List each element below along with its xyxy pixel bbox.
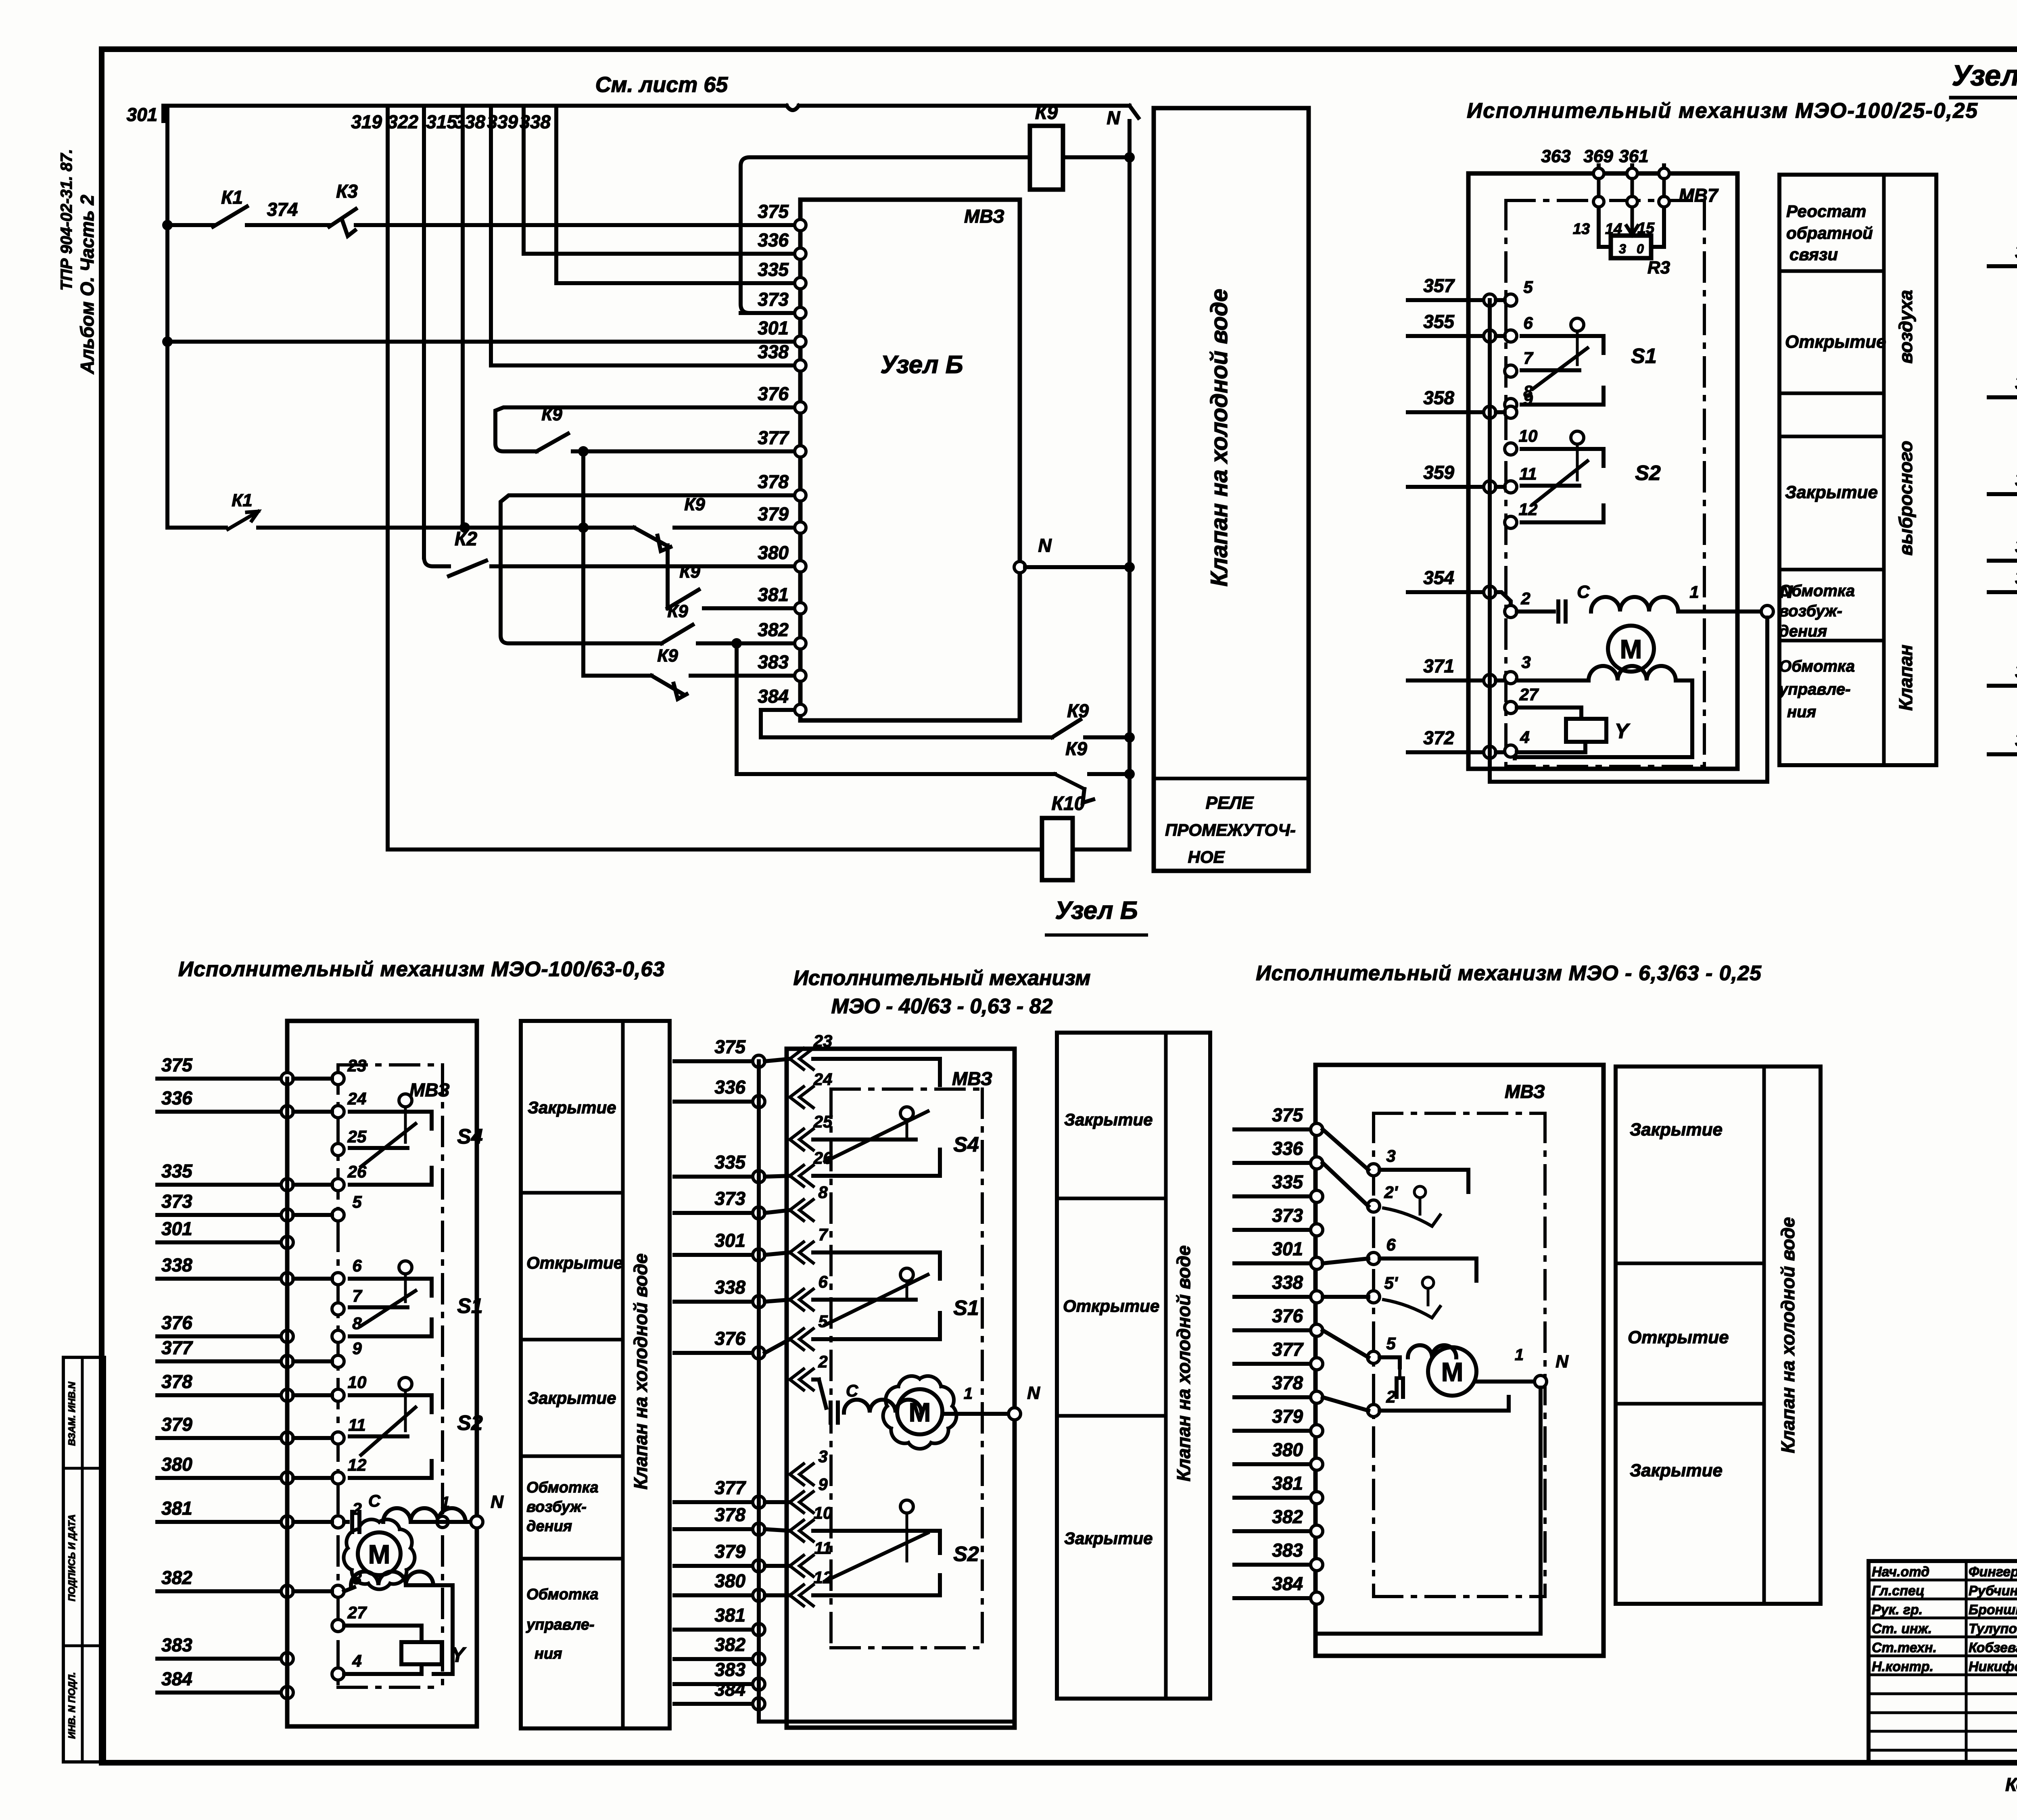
label N mid <box>1038 535 1052 556</box>
svg-text:Никифорова: Никифорова <box>1969 1659 2017 1674</box>
node N of MVZ <box>1014 561 1130 573</box>
terminal 384 of MVZ <box>795 704 806 716</box>
feeder wire 369 A1 <box>1630 165 1634 173</box>
wire 378 corner drop <box>501 511 662 643</box>
terminal label 358 A1 <box>1423 387 1454 408</box>
feeder label 338 <box>520 111 551 132</box>
svg-text:возбуж-: возбуж- <box>526 1499 587 1515</box>
label K9 381 <box>679 562 700 582</box>
terminal 381 B3 <box>1311 1492 1323 1504</box>
terminal label 382 B3 <box>1272 1506 1303 1527</box>
label S1 B2 <box>953 1296 979 1320</box>
svg-text:378: 378 <box>161 1371 192 1392</box>
junction 315-379 <box>459 522 470 533</box>
svg-text:380: 380 <box>161 1454 192 1475</box>
svg-text:К9: К9 <box>1035 102 1058 123</box>
svg-text:11: 11 <box>1519 464 1537 483</box>
terminal label 378 <box>758 471 789 492</box>
wire 381 <box>704 606 795 610</box>
margin stamp table <box>63 1357 104 1762</box>
switch S2 B2 bracket <box>813 1500 940 1595</box>
svg-text:336: 336 <box>714 1077 745 1098</box>
svg-text:S4: S4 <box>457 1125 483 1148</box>
svg-text:10: 10 <box>348 1373 367 1392</box>
svg-text:S2: S2 <box>953 1542 979 1566</box>
svg-text:358: 358 <box>1423 387 1454 408</box>
svg-text:Тулупова: Тулупова <box>1969 1621 2017 1636</box>
switch S contact 5' B3 <box>1380 1259 1476 1318</box>
svg-text:10: 10 <box>814 1503 833 1522</box>
table A1 valve of exhaust air <box>1779 175 1936 765</box>
wire 384 B3 <box>1234 1596 1317 1600</box>
svg-text:384: 384 <box>161 1668 192 1689</box>
terminal 377 of MVZ <box>795 446 806 457</box>
pin 6 B1 <box>332 1256 362 1285</box>
svg-text:дения: дения <box>1779 622 1827 640</box>
svg-text:338: 338 <box>161 1254 192 1275</box>
terminal label 338 <box>758 341 789 362</box>
contact K9 382 <box>662 625 693 643</box>
wire 375 B2 <box>674 1059 759 1063</box>
terminal label 357 A1 <box>1423 275 1455 296</box>
svg-text:381: 381 <box>714 1605 745 1626</box>
wire 377 <box>573 449 795 453</box>
svg-text:376: 376 <box>161 1312 192 1333</box>
pin circle 13 A1 <box>1593 179 1604 207</box>
terminal 377 B2 <box>753 1496 765 1508</box>
label pins 13 14 15 A1 <box>1573 220 1655 238</box>
label N B1 <box>491 1492 504 1512</box>
svg-text:375: 375 <box>1272 1104 1303 1125</box>
wire 354 A2 <box>1989 590 2017 594</box>
svg-text:361: 361 <box>1619 146 1648 166</box>
svg-text:дения: дения <box>526 1518 572 1535</box>
svg-text:301: 301 <box>714 1230 745 1251</box>
table B3 text Otkrytie <box>1628 1327 1729 1347</box>
svg-text:363: 363 <box>1541 146 1570 166</box>
terminal label 380 <box>758 542 789 563</box>
svg-text:Клапан на холодной воде: Клапан на холодной воде <box>1206 289 1232 586</box>
terminal label 372 A1 <box>1423 727 1454 748</box>
wire 338 B1 <box>157 1277 287 1281</box>
svg-text:376: 376 <box>714 1328 745 1349</box>
table B1 text Otkrytie <box>526 1253 623 1272</box>
pin 10 B1 <box>332 1373 366 1401</box>
svg-text:371: 371 <box>1423 655 1454 676</box>
svg-text:335: 335 <box>161 1160 193 1181</box>
wire 335 corner <box>556 281 795 285</box>
bottom return wire B3 <box>1317 1632 1541 1636</box>
wire K10 feeder <box>388 847 1042 852</box>
contact K9 384 <box>1052 720 1080 737</box>
switch S2 B1 <box>350 1378 483 1478</box>
terminal label 380 B2 <box>714 1570 745 1591</box>
svg-text:336: 336 <box>1272 1138 1303 1159</box>
box Klapan na holodnoy vode <box>1154 108 1309 871</box>
pin 2 B1 <box>332 1499 362 1528</box>
wire 383 B2 <box>674 1682 759 1686</box>
terminal 380 B3 <box>1311 1458 1323 1470</box>
svg-text:9: 9 <box>352 1339 362 1358</box>
wire 373 B2 <box>674 1211 759 1215</box>
wire 335 B2 <box>674 1175 759 1179</box>
wire link 381 B1 <box>293 1520 332 1524</box>
wire 301 branch <box>167 340 795 344</box>
terminal label 377 B3 <box>1272 1339 1304 1360</box>
terminal label 359 A1 <box>1423 462 1454 483</box>
label K1 lower <box>232 490 253 510</box>
svg-text:354: 354 <box>2015 567 2017 588</box>
wire feeder 322 <box>422 106 426 557</box>
svg-text:372: 372 <box>1423 727 1454 748</box>
wire 380 B3 <box>1234 1462 1317 1466</box>
svg-text:S4: S4 <box>953 1133 979 1156</box>
resistor R3 A1 <box>1611 236 1651 258</box>
dash-dot enclosure B3 <box>1374 1113 1545 1597</box>
pin 12 B2 <box>790 1568 832 1606</box>
terminal 375 B3 <box>1311 1123 1323 1135</box>
svg-text:1: 1 <box>1689 582 1699 601</box>
terminal label 335 <box>758 259 789 280</box>
wire 373 B1 <box>157 1213 287 1217</box>
svg-text:Открытие: Открытие <box>1628 1327 1729 1347</box>
pin 5' B3 <box>1368 1273 1399 1303</box>
wire pin3-winding A1 <box>1517 678 1589 682</box>
svg-text:383: 383 <box>714 1659 745 1680</box>
svg-text:С: С <box>846 1381 858 1400</box>
capacitor C A1 <box>1558 582 1590 622</box>
svg-text:Узел Б: Узел Б <box>1055 897 1138 925</box>
svg-text:338: 338 <box>454 111 485 132</box>
terminal 384 B2 <box>753 1698 765 1710</box>
svg-text:Нач.отд: Нач.отд <box>1872 1564 1929 1580</box>
wire 381 B3 <box>1234 1496 1317 1500</box>
svg-text:К10: К10 <box>1052 793 1085 814</box>
wire K9b to N <box>1089 772 1130 776</box>
terminal label 381 B2 <box>714 1605 745 1626</box>
svg-text:301: 301 <box>127 104 158 125</box>
wire N vertical B3 <box>1539 1388 1543 1634</box>
wire 375 to unit B <box>356 223 795 227</box>
pin 24 B2 <box>790 1070 832 1108</box>
wire 382 B2 <box>674 1657 759 1661</box>
svg-text:Обмотка: Обмотка <box>1779 582 1855 600</box>
svg-text:374: 374 <box>267 199 298 220</box>
svg-text:372: 372 <box>2015 729 2017 750</box>
svg-text:379: 379 <box>714 1541 745 1562</box>
label K9b <box>1065 738 1087 759</box>
terminal label 383 B2 <box>714 1659 745 1680</box>
bottom return wire B1 <box>287 1724 477 1728</box>
terminal 336 B2 <box>753 1096 765 1108</box>
svg-text:375: 375 <box>161 1054 193 1075</box>
svg-text:24: 24 <box>813 1070 833 1089</box>
terminal 382 of MVZ <box>795 638 806 649</box>
svg-text:Бронштейн: Бронштейн <box>1969 1602 2017 1618</box>
terminal 338 B2 <box>753 1296 765 1308</box>
table B3 text Zakrytie 2 <box>1630 1461 1723 1480</box>
label R3 A1 <box>1647 258 1670 278</box>
pin 27 B1 <box>332 1603 367 1632</box>
pin 7 B1 <box>332 1286 362 1315</box>
left margin text Albom 0 Chast 2 <box>77 194 98 374</box>
terminal label 373 B3 <box>1272 1205 1303 1226</box>
wire 378 B1 <box>157 1393 287 1397</box>
svg-text:R3: R3 <box>1647 258 1670 278</box>
pin 2 B3 <box>1368 1387 1396 1417</box>
margin label podpis i data <box>67 1514 77 1601</box>
wire link 3 B2 <box>765 1252 790 1255</box>
terminal 379 B3 <box>1311 1425 1323 1437</box>
wire 384 exit <box>761 710 1052 737</box>
wire 377 B1 <box>157 1359 287 1363</box>
unit box MVZ B3 <box>1315 1065 1604 1656</box>
table A1 text Reostat <box>1786 202 1873 264</box>
feeder wire 361 A1 <box>1662 165 1666 173</box>
svg-text:355: 355 <box>1423 311 1455 332</box>
label K9 383 <box>657 646 678 666</box>
terminal 373 B1 <box>281 1209 293 1221</box>
wire 336 corner <box>524 252 795 256</box>
wire 379 segment c <box>674 526 795 530</box>
svg-text:381: 381 <box>758 584 789 605</box>
terminal 383 B2 <box>753 1678 765 1690</box>
svg-text:К2: К2 <box>455 528 478 550</box>
wire 373 B3 <box>1234 1228 1317 1232</box>
terminal 301 B2 <box>753 1249 765 1261</box>
svg-text:336: 336 <box>161 1087 192 1108</box>
terminal label 335 B1 <box>161 1160 193 1181</box>
svg-text:378: 378 <box>758 471 789 492</box>
wire link 378 B1 <box>293 1393 332 1397</box>
label K9 382 <box>667 601 688 621</box>
terminal 335 B1 <box>281 1179 293 1191</box>
wire 379 B3 <box>1234 1429 1317 1433</box>
terminal 301 B1 <box>281 1236 293 1248</box>
svg-text:377: 377 <box>758 427 789 448</box>
feeder label 338 <box>454 111 485 132</box>
svg-text:Открытие: Открытие <box>526 1253 623 1272</box>
wire link 375 B1 <box>293 1077 332 1081</box>
svg-text:Закрытие: Закрытие <box>1064 1110 1153 1129</box>
svg-text:373: 373 <box>161 1191 192 1212</box>
svg-text:4: 4 <box>352 1651 361 1670</box>
note Sm. list 65 <box>595 73 729 97</box>
pin 3 A1 <box>1505 653 1531 684</box>
pin 25 B1 <box>332 1127 367 1156</box>
wire K9 coil to N <box>1063 155 1130 159</box>
svg-text:27: 27 <box>347 1603 367 1622</box>
pin 9 B2 <box>790 1475 828 1513</box>
table B1 valve cold water <box>521 1021 670 1728</box>
terminal 375 B2 <box>753 1055 765 1067</box>
svg-text:381: 381 <box>161 1498 192 1519</box>
wire 359 A2 <box>1989 559 2017 563</box>
wire 381 B1 <box>157 1520 287 1524</box>
wire 377 B2 <box>674 1500 759 1504</box>
pin 2' B3 <box>1368 1183 1399 1212</box>
svg-text:376: 376 <box>758 383 789 404</box>
label K9 384 <box>1067 700 1089 721</box>
svg-text:5: 5 <box>1386 1334 1396 1353</box>
wire pin9 A1 <box>1496 410 1505 414</box>
label 374 <box>267 199 298 220</box>
svg-text:338: 338 <box>1272 1272 1303 1293</box>
terminal 358 A1 <box>1484 406 1496 418</box>
svg-text:5: 5 <box>818 1312 828 1331</box>
wire link 1 B2 <box>765 1176 790 1177</box>
label 1 B3 <box>1515 1346 1524 1364</box>
label MVZ B3 <box>1505 1081 1545 1102</box>
terminal 379 B2 <box>753 1560 765 1572</box>
pin 5 B1 <box>332 1192 362 1221</box>
wire pin2-cap A1 <box>1517 609 1554 614</box>
svg-text:S1: S1 <box>953 1296 979 1320</box>
wire link 9 B2 <box>765 1593 790 1597</box>
pin 4 B1 <box>332 1651 362 1680</box>
pin 24 B1 <box>332 1089 366 1118</box>
wire 378 <box>501 495 795 511</box>
feeder label 369 A1 <box>1583 146 1613 166</box>
feeder label 319 <box>351 111 382 132</box>
svg-text:См. лист 65: См. лист 65 <box>595 73 729 97</box>
node N B2 <box>1008 1408 1021 1420</box>
svg-text:Узел Б: Узел Б <box>880 351 963 379</box>
terminal label 371 A2 <box>2015 661 2017 682</box>
svg-text:ТПР 904-02-31. 87.: ТПР 904-02-31. 87. <box>58 149 75 290</box>
svg-text:К1: К1 <box>232 490 253 510</box>
svg-text:369: 369 <box>1583 146 1613 166</box>
svg-text:359: 359 <box>2015 536 2017 557</box>
R3 bracket A1 <box>1599 209 1664 247</box>
terminal 380 of MVZ <box>795 561 806 572</box>
svg-text:377: 377 <box>1272 1339 1304 1360</box>
wire 379 segment b <box>258 526 634 530</box>
terminal 373 of MVZ <box>795 307 806 319</box>
table B1 text Zakrytie 2 <box>528 1388 616 1407</box>
svg-text:связи: связи <box>1789 245 1838 264</box>
svg-text:7: 7 <box>1523 349 1533 367</box>
wire 354 A1 <box>1408 590 1490 594</box>
label N B3 <box>1556 1352 1569 1371</box>
wire 377 B3 <box>1234 1362 1317 1366</box>
terminal 384 B3 <box>1311 1592 1323 1604</box>
svg-text:4: 4 <box>1520 728 1529 747</box>
terminal label 384 B1 <box>161 1668 192 1689</box>
label K9 377 <box>541 405 562 424</box>
dash-dot enclosure A1 <box>1506 200 1704 766</box>
wire 335 B1 <box>157 1183 287 1187</box>
svg-text:355: 355 <box>2015 372 2017 393</box>
terminal 13 top A1 <box>1593 168 1604 179</box>
svg-text:К9: К9 <box>541 405 562 424</box>
terminal label 336 <box>758 230 789 250</box>
svg-text:0: 0 <box>1637 242 1644 256</box>
terminal 375 B1 <box>281 1073 293 1085</box>
svg-text:322: 322 <box>387 111 418 132</box>
junction 1 B1 <box>437 1516 448 1528</box>
svg-text:ВЗАМ. ИНВ.N: ВЗАМ. ИНВ.N <box>67 1382 77 1446</box>
wire 357 A1 <box>1408 298 1490 302</box>
terminal label 382 B2 <box>714 1634 745 1655</box>
wire feeder 338a <box>489 106 493 365</box>
node label 301 <box>127 104 158 125</box>
label N top <box>1107 107 1120 128</box>
svg-text:Закрытие: Закрытие <box>528 1098 616 1117</box>
terminal label 336 B3 <box>1272 1138 1303 1159</box>
terminal label 355 A1 <box>1423 311 1455 332</box>
svg-text:Закрытие: Закрытие <box>1630 1120 1723 1140</box>
pin 3 B3 <box>1368 1146 1396 1176</box>
svg-text:3: 3 <box>1619 242 1626 256</box>
svg-text:7: 7 <box>352 1286 362 1305</box>
label MV7 A1 <box>1679 185 1719 206</box>
cable group bracket <box>741 157 1030 313</box>
svg-text:К1: К1 <box>221 187 243 208</box>
wire 378 B2 <box>674 1527 759 1531</box>
wire 382 B1 <box>157 1589 287 1593</box>
relay coil K9 <box>1030 126 1063 190</box>
svg-text:354: 354 <box>1423 567 1454 588</box>
svg-text:319: 319 <box>351 111 382 132</box>
terminal label 382 B1 <box>161 1567 192 1588</box>
svg-text:23: 23 <box>347 1056 367 1075</box>
svg-text:383: 383 <box>758 651 789 672</box>
heading Uzel B bottom <box>1046 897 1146 935</box>
label MVZ B2 <box>952 1068 992 1089</box>
label K9 379 <box>684 495 705 514</box>
svg-text:12: 12 <box>348 1455 367 1474</box>
svg-text:Копировал: Логинова: Копировал: Логинова <box>2005 1774 2017 1795</box>
label N B2 <box>1027 1383 1040 1403</box>
table B2 text Otkrytie <box>1063 1296 1159 1315</box>
signature row Н.контр. <box>1872 1659 2017 1674</box>
terminal 378 B3 <box>1311 1391 1323 1403</box>
svg-text:373: 373 <box>714 1188 745 1209</box>
svg-text:338: 338 <box>758 341 789 362</box>
pin 6 B3 <box>1368 1235 1396 1265</box>
terminal label 354 A1 <box>1423 567 1454 588</box>
pin 12 A1 <box>1505 500 1537 528</box>
terminal label 379 B2 <box>714 1541 745 1562</box>
svg-text:воздуха: воздуха <box>1895 290 1916 364</box>
svg-text:Рук. гр.: Рук. гр. <box>1872 1602 1923 1618</box>
pin 10 A1 <box>1505 426 1537 455</box>
wire 336 B2 <box>674 1100 759 1104</box>
wire 382 to K9b <box>737 643 1055 774</box>
label K1 <box>221 187 243 208</box>
svg-text:управле-: управле- <box>526 1616 595 1633</box>
terminal 359 A1 <box>1484 481 1496 493</box>
svg-text:375: 375 <box>714 1036 746 1057</box>
heading Uzel A <box>1951 60 2017 98</box>
svg-text:382: 382 <box>161 1567 192 1588</box>
label K10 <box>1052 793 1085 814</box>
wire K9 384 to N <box>1085 735 1130 739</box>
wire 355 A2 <box>1989 395 2017 399</box>
wire link 8 B2 <box>765 1564 790 1568</box>
wire 301 B3 <box>1234 1261 1317 1265</box>
svg-text:373: 373 <box>758 289 789 310</box>
svg-text:335: 335 <box>1272 1171 1303 1192</box>
wire pin4 B1 <box>344 1672 422 1676</box>
svg-text:379: 379 <box>161 1414 192 1435</box>
terminal label 375 B2 <box>714 1036 746 1057</box>
svg-text:Обмотка: Обмотка <box>526 1479 599 1496</box>
table B2 rotated text <box>1173 1245 1194 1481</box>
svg-text:378: 378 <box>1272 1372 1303 1393</box>
svg-text:357: 357 <box>1423 275 1455 296</box>
